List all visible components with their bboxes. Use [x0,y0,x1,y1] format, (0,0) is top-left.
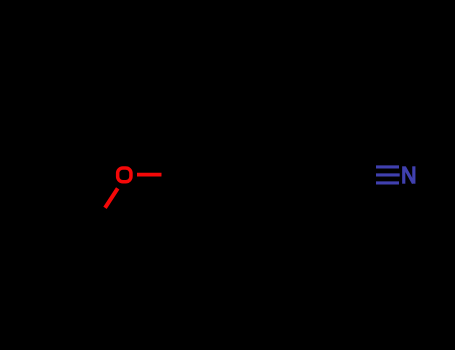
triple bond C#N blue halves (nitrogen side) [376,165,399,168]
nitrogen atom label N (blue glyph) [404,166,414,183]
ether bond O-C1 black half [162,173,169,177]
bond CH2-CH3 black [62,219,97,241]
oxygen atom label O (red glyph, rounded-square ring) [118,168,131,182]
bond C4-C(nitrile) black [310,173,354,177]
ether bond O-CH2 red half [105,188,118,208]
triple bond C#N black halves (carbon side) [354,165,376,168]
ether bond O-C1 red half [137,173,162,177]
benzene ring C1-C6 (black bonds, invisible on black) [168,96,310,245]
ether bond O-CH2 black half [97,208,105,219]
